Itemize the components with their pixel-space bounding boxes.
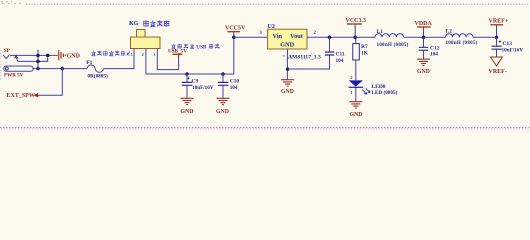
svg-text:1: 1 <box>131 52 133 57</box>
svg-text:VREF+: VREF+ <box>489 19 509 25</box>
svg-text:Vin: Vin <box>273 33 283 40</box>
junction C10/bus <box>221 72 225 76</box>
svg-text:104: 104 <box>230 85 238 91</box>
top-left grey marks <box>1 2 21 4</box>
svg-text:Vout: Vout <box>290 33 303 40</box>
switch knob <box>137 30 146 38</box>
wire bus VCC5V rail <box>146 37 234 74</box>
wire to U2 pin 3 <box>234 36 268 38</box>
svg-text:GND: GND <box>350 112 363 118</box>
junction jack/top wire <box>36 54 40 58</box>
svg-text:GND: GND <box>216 109 229 115</box>
junction VCC5V/Vin <box>232 35 236 39</box>
wire vertical to barrel <box>37 55 39 68</box>
ground LED <box>349 102 362 108</box>
svg-text:C11: C11 <box>336 52 345 58</box>
svg-text:GND: GND <box>181 109 194 115</box>
svg-text:SP: SP <box>4 48 11 54</box>
junction VREF+/C13/rail <box>495 35 499 39</box>
jack SP symbol <box>3 55 9 59</box>
svg-text:3: 3 <box>153 52 155 57</box>
switch pin 3 wire to USB_5V <box>157 49 178 70</box>
ground C10 <box>217 98 230 104</box>
capacitor C11 <box>329 37 331 51</box>
svg-text:100nH (0805): 100nH (0805) <box>446 41 478 46</box>
svg-text:104: 104 <box>336 58 344 64</box>
capacitor C12 <box>423 37 425 47</box>
svg-text:1K: 1K <box>361 51 369 57</box>
svg-text:R7: R7 <box>361 44 368 50</box>
border bottom dashed <box>0 127 530 129</box>
ground U2 <box>281 80 294 86</box>
svg-text:C9: C9 <box>192 79 199 85</box>
svg-text:VCC5V: VCC5V <box>225 26 246 32</box>
capacitor C10 <box>222 74 224 82</box>
svg-text:GND: GND <box>281 89 294 95</box>
switch body <box>131 37 161 49</box>
svg-text:VCC3.3: VCC3.3 <box>346 18 367 24</box>
junction VDDA/C12/rail <box>422 35 426 39</box>
ground C12 <box>417 59 430 65</box>
svg-text:10uF/16V: 10uF/16V <box>192 85 214 91</box>
svg-text:0R(0805): 0R(0805) <box>88 73 108 80</box>
power VREF- (triangle) <box>491 57 503 66</box>
fuse F1 <box>87 65 104 73</box>
annotation 选择内部USB供电 <box>171 44 194 49</box>
svg-text:USB: USB <box>196 45 207 51</box>
svg-text:100nH (0805): 100nH (0805) <box>377 43 409 48</box>
wire fuse to switch left pin <box>104 49 135 69</box>
svg-text:KG: KG <box>129 21 139 27</box>
svg-text:GND: GND <box>417 69 430 75</box>
svg-text:F1: F1 <box>86 60 92 66</box>
LED LED0 <box>355 60 357 80</box>
wire U2 Vout rail <box>307 36 375 38</box>
ground (right-facing) after jack <box>59 50 66 60</box>
svg-text:GND: GND <box>67 53 81 59</box>
switch pin 2 wire to bus <box>145 49 147 75</box>
svg-text:C10: C10 <box>230 79 240 85</box>
wire jack loop <box>18 55 48 61</box>
connector PWR 5V (barrel) <box>4 66 33 71</box>
junction EXT_SPW branch <box>61 67 65 71</box>
junction loop/top wire <box>46 54 50 58</box>
junction barrel tip <box>36 67 40 71</box>
capacitor C9 <box>186 74 188 82</box>
wire barrel to fuse <box>33 68 87 70</box>
resistor R7 <box>355 37 357 43</box>
svg-text:3: 3 <box>259 30 262 36</box>
svg-text:AMS1117_3.3: AMS1117_3.3 <box>288 55 321 61</box>
svg-text:2: 2 <box>313 30 316 36</box>
wire L2 to C13 <box>473 36 497 38</box>
junction R7/VCC3.3/rail <box>353 35 357 39</box>
svg-text:PWR 5V: PWR 5V <box>4 72 24 78</box>
wire L1 to L2 <box>404 36 446 38</box>
junction C11/rail <box>328 35 332 39</box>
border top dashed <box>26 3 530 5</box>
U2 GND pin wire <box>286 49 288 79</box>
wire jack top contact <box>10 54 48 56</box>
svg-text:VDDA: VDDA <box>415 21 433 27</box>
svg-text:2: 2 <box>142 52 144 57</box>
svg-text:C13: C13 <box>503 41 513 47</box>
junction C9/bus <box>185 72 189 76</box>
wire EXT_SPW <box>38 69 62 96</box>
annotation 拨动开关 <box>143 20 169 26</box>
annotation 选择外部供电 <box>91 51 125 56</box>
svg-text:GND: GND <box>280 42 294 49</box>
jack pin stub <box>37 51 39 56</box>
svg-text:LED (0805): LED (0805) <box>372 89 398 96</box>
svg-text:EXT_SPW: EXT_SPW <box>7 93 35 99</box>
junction U2 gnd/C11 <box>286 67 290 71</box>
svg-text:10uF/16V: 10uF/16V <box>502 48 524 54</box>
svg-text:104: 104 <box>430 51 438 57</box>
capacitor C13 <box>496 37 498 46</box>
svg-text:VREF-: VREF- <box>489 69 507 75</box>
ground C9 <box>181 98 194 104</box>
junction loop crossing <box>36 60 40 64</box>
